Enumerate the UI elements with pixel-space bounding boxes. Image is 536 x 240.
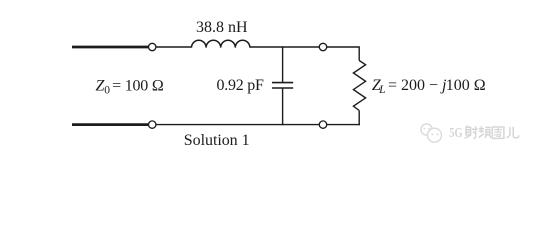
wire shunt branch lower segment — [282, 88, 284, 125]
svg-text:5G: 5G — [449, 125, 463, 140]
wire load branch bottom — [358, 111, 360, 126]
wire load branch top — [358, 46, 360, 60]
watermark logo circles — [421, 124, 442, 142]
wire top terminal to load corner — [327, 46, 359, 48]
watermark glyph 频 — [479, 126, 491, 138]
watermark glyph 儿 — [506, 127, 518, 138]
wire bottom-left thick feed line — [72, 123, 148, 126]
inductor L1 38.8 nH — [192, 40, 250, 47]
svg-text:0.92 pF: 0.92 pF — [217, 77, 265, 94]
wire top-left thick feed line — [72, 46, 148, 49]
wire from top terminal to inductor — [156, 46, 192, 48]
node bottom-left port terminal (open circle) — [149, 121, 156, 128]
watermark glyph 射 — [465, 126, 478, 139]
capacitor C1 0.92 pF plates — [272, 82, 293, 84]
svg-text:38.8 nH: 38.8 nH — [196, 19, 248, 36]
watermark glyph 圈 — [492, 127, 504, 138]
wire shunt branch upper segment — [282, 46, 284, 82]
node bottom-right port terminal (open circle) — [319, 121, 326, 128]
node top-right port terminal (open circle) — [319, 43, 326, 50]
wire bottom terminal to load corner — [327, 124, 360, 126]
svg-text:ZL = 200 −j100 Ω: ZL = 200 −j100 Ω — [372, 77, 486, 96]
svg-text:Solution 1: Solution 1 — [184, 132, 250, 149]
wire bottom rail — [156, 124, 319, 126]
wire inductor to top-right terminal — [250, 46, 319, 48]
node top-left port terminal (open circle) — [149, 43, 156, 50]
resistor ZL zigzag — [353, 61, 365, 111]
